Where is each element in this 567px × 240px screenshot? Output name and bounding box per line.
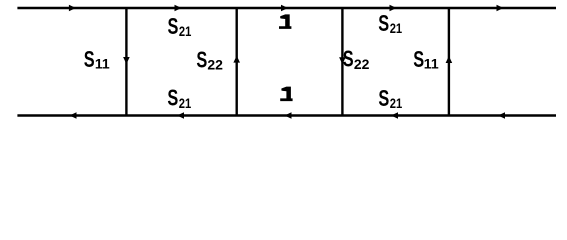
svg-text:21: 21 <box>390 96 402 111</box>
svg-text:S: S <box>167 86 178 111</box>
svg-text:S: S <box>196 48 207 73</box>
svg-text:21: 21 <box>179 24 191 39</box>
svg-text:S: S <box>343 47 354 72</box>
svg-text:S: S <box>378 11 389 36</box>
svg-text:S: S <box>378 86 389 111</box>
svg-text:21: 21 <box>390 21 402 36</box>
svg-text:21: 21 <box>179 96 191 111</box>
svg-text:S: S <box>84 47 95 72</box>
svg-text:11: 11 <box>95 56 110 72</box>
svg-text:S: S <box>168 15 179 40</box>
svg-text:S: S <box>413 47 424 72</box>
svg-text:22: 22 <box>207 57 223 73</box>
svg-text:22: 22 <box>354 56 370 72</box>
svg-text:11: 11 <box>424 56 439 72</box>
